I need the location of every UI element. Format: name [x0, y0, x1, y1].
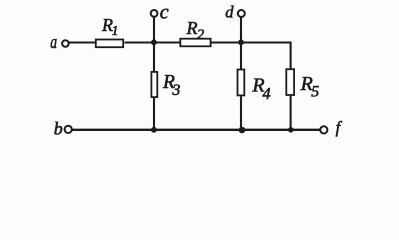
- junction dot at node c (top): [151, 39, 157, 45]
- svg-text:5: 5: [311, 83, 319, 100]
- wire R3 to bottom wire: [153, 98, 155, 130]
- terminal a: [50, 31, 69, 53]
- svg-text:c: c: [160, 1, 169, 23]
- label R4: [251, 74, 270, 103]
- resistor R4: [238, 70, 245, 96]
- svg-text:2: 2: [197, 27, 204, 43]
- resistor R1: [96, 40, 123, 48]
- svg-text:f: f: [336, 118, 343, 137]
- junction dot bottom below R3: [151, 127, 157, 133]
- junction dot at node d (top): [238, 39, 244, 45]
- svg-text:R: R: [186, 18, 198, 38]
- resistor R2: [180, 39, 210, 47]
- wire top-right corner down to R5: [290, 42, 292, 70]
- wire R4 to bottom wire: [240, 96, 242, 130]
- junction dot bottom below R5: [288, 127, 294, 133]
- resistor R5: [286, 69, 294, 95]
- wire a to R1: [69, 41, 96, 43]
- terminal f: [320, 118, 342, 137]
- svg-text:b: b: [54, 119, 63, 139]
- terminal d: [225, 2, 245, 21]
- svg-text:4: 4: [262, 84, 270, 103]
- junction dot bottom below R4: [239, 127, 246, 134]
- wire node c junction to R3: [153, 43, 155, 72]
- terminal b: [54, 119, 72, 139]
- wire R5 to bottom wire: [290, 96, 292, 130]
- wire R2 to node d junction: [212, 41, 242, 43]
- wire node d junction to R4: [240, 43, 242, 70]
- label R5: [300, 73, 320, 100]
- wire R1 to node c junction: [125, 41, 155, 43]
- terminal c: [151, 1, 169, 23]
- svg-text:1: 1: [112, 23, 119, 38]
- wire terminal d to node d junction: [240, 17, 242, 42]
- wire terminal c to node c junction: [153, 17, 155, 42]
- svg-text:a: a: [50, 31, 57, 53]
- wire node c junction to R2: [154, 41, 180, 43]
- resistor R3: [151, 72, 157, 97]
- svg-text:3: 3: [171, 82, 180, 99]
- label R3: [162, 72, 180, 99]
- label R1: [101, 15, 118, 38]
- wire node d junction to top-right corner: [241, 41, 291, 43]
- svg-text:d: d: [225, 2, 234, 21]
- label R2: [186, 18, 205, 43]
- wire bottom: b to f: [72, 129, 319, 131]
